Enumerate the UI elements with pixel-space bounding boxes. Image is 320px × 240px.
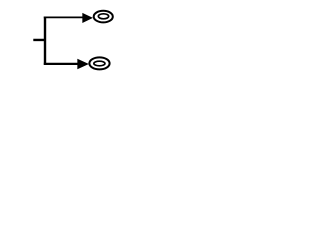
indicator lamp L1 inner ellipse (top): [98, 14, 108, 19]
amplifier/driver triangle A1 (top): [82, 13, 93, 23]
wire: top branch: [44, 16, 83, 18]
indicator lamp L1 outer ring (top): [94, 11, 113, 23]
wire: input stub to node A: [33, 39, 46, 41]
indicator lamp L2 inner ellipse (bottom): [94, 61, 105, 66]
amplifier/driver triangle A2 (bottom): [77, 59, 89, 70]
wire: vertical bus at node A: [44, 17, 46, 65]
wire: bottom branch: [44, 63, 78, 65]
indicator lamp L2 outer ring (bottom): [89, 57, 109, 69]
